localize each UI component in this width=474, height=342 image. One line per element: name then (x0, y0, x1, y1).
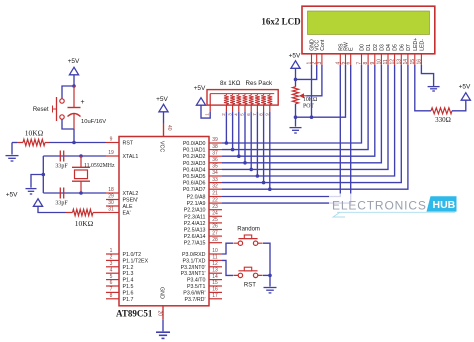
wire Random to gnd leg (263, 243, 270, 275)
svg-text:P1.4: P1.4 (123, 278, 134, 284)
svg-text:XTAL2: XTAL2 (123, 191, 139, 197)
wire XTAL1 row (43, 155, 106, 157)
power +5V led (459, 83, 471, 100)
wire respack common to +5V (201, 105, 210, 118)
pin PSEN' 29 (106, 194, 138, 204)
svg-text:D3: D3 (379, 44, 385, 51)
svg-text:P1.6: P1.6 (123, 290, 134, 296)
wire P0.0 to LCD D0 (222, 65, 362, 143)
wire respack pin6 to P0.4 (250, 112, 252, 169)
node P0.5 pullup (256, 174, 260, 178)
svg-text:P0.3/AD3: P0.3/AD3 (183, 161, 206, 167)
svg-text:XTAL1: XTAL1 (123, 154, 139, 160)
svg-text:39: 39 (212, 137, 218, 143)
pin P0.4/AD4 35 (183, 164, 222, 174)
pin P0.7/AD7 32 (183, 183, 222, 193)
label VCC (158, 141, 164, 152)
svg-text:D1: D1 (366, 44, 372, 51)
svg-text:ALE: ALE (123, 204, 133, 210)
svg-text:P3.0/RXD: P3.0/RXD (182, 252, 206, 258)
pin P1.3 4 (106, 267, 133, 277)
label AT89C51 (116, 309, 153, 319)
svg-text:14: 14 (403, 59, 409, 65)
svg-text:32: 32 (212, 183, 218, 189)
pin P0.0/AD0 39 (183, 137, 222, 147)
wire LED+ down (415, 65, 431, 111)
label 16x2 LCD (261, 17, 301, 27)
pin P2.1/A9 22 (187, 197, 222, 207)
pin P1.5 6 (106, 280, 133, 290)
svg-text:AT89C51: AT89C51 (116, 309, 153, 319)
svg-text:P1.5: P1.5 (123, 284, 134, 290)
svg-text:330Ω: 330Ω (435, 116, 451, 124)
switch Reset (53, 97, 65, 121)
svg-text:P2.2/A10: P2.2/A10 (184, 208, 206, 214)
svg-text:D2: D2 (373, 44, 379, 51)
switch RST (233, 267, 262, 277)
svg-text:13: 13 (212, 267, 218, 273)
pin P3.4/T0 14 (187, 274, 222, 284)
svg-text:P0.4/AD4: P0.4/AD4 (183, 167, 206, 173)
svg-text:21: 21 (212, 191, 218, 197)
node reset top junction (72, 84, 76, 88)
label RST (244, 283, 256, 289)
svg-text:D5: D5 (393, 44, 399, 51)
label X1 11.0592MHz (84, 163, 115, 169)
power +5V VCC (156, 96, 168, 112)
label 330 (435, 116, 451, 124)
pin P1.7 8 (106, 293, 133, 303)
svg-text:23: 23 (212, 204, 218, 210)
pin P2.0/A8 21 (187, 191, 222, 201)
label 10K POT (303, 97, 318, 110)
svg-text:HUB: HUB (433, 199, 456, 211)
watermark backdrop (329, 194, 458, 215)
svg-text:P0.7/AD7: P0.7/AD7 (183, 187, 206, 193)
svg-text:7: 7 (110, 287, 113, 293)
svg-text:16: 16 (212, 287, 218, 293)
wire P0.5 to LCD D5 (222, 65, 395, 176)
svg-text:10uF/16V: 10uF/16V (81, 119, 106, 125)
node lcd gnd junction (310, 115, 314, 119)
svg-text:P3.6/WR': P3.6/WR' (183, 290, 205, 296)
svg-text:RST: RST (244, 283, 256, 289)
node P0.3 pullup (243, 161, 247, 165)
node pot top junction (294, 78, 298, 82)
label 10uF/16V (81, 119, 106, 125)
svg-text:33pF: 33pF (55, 201, 68, 207)
svg-text:12: 12 (212, 261, 218, 267)
svg-text:40: 40 (166, 125, 172, 131)
svg-text:ELECTRONICS: ELECTRONICS (332, 199, 427, 213)
svg-text:P0.0/AD0: P0.0/AD0 (183, 141, 206, 147)
svg-text:20: 20 (157, 311, 163, 317)
svg-text:Cont: Cont (320, 39, 326, 51)
svg-text:16: 16 (416, 59, 422, 65)
svg-text:P1.2: P1.2 (123, 265, 134, 271)
wire +5V to junction (73, 75, 75, 86)
pin P0.6/AD6 33 (183, 177, 222, 187)
lcd screen (308, 11, 430, 35)
pin XTAL1 19 (106, 150, 138, 160)
wire GND pin1 (311, 65, 313, 117)
svg-text:33: 33 (212, 177, 218, 183)
wire P0.7 to LCD D7 (222, 65, 408, 189)
wire P0.6 to LCD D6 (222, 65, 401, 183)
svg-text:+: + (81, 99, 85, 106)
pin P2.7/A15 28 (184, 237, 222, 247)
wire P2.0 to LCD RS (222, 65, 340, 197)
pin P2.4/A12 25 (184, 217, 222, 227)
ground pot (290, 128, 302, 133)
svg-text:Reset: Reset (33, 107, 49, 113)
node RST junction (72, 141, 76, 145)
svg-text:22: 22 (212, 197, 218, 203)
svg-text:6: 6 (346, 62, 352, 65)
potentiometer RV1 10K (293, 87, 307, 104)
svg-text:4: 4 (110, 267, 113, 273)
wire VCC pin2 (296, 65, 317, 80)
wire P0.1 to LCD D1 (222, 65, 368, 150)
node P0.6 pullup (262, 181, 266, 185)
svg-text:P1.3: P1.3 (123, 271, 134, 277)
label GND (158, 287, 164, 299)
label respack (220, 80, 273, 87)
watermark electronics hub (332, 196, 457, 217)
label pin 40 (166, 125, 172, 131)
svg-text:12: 12 (390, 59, 396, 65)
node buttons gnd junction (268, 274, 272, 278)
svg-text:29: 29 (108, 194, 114, 200)
svg-text:P0.6/AD6: P0.6/AD6 (183, 181, 206, 187)
node XTAL1 crystal junction (79, 154, 83, 158)
pin P1.2 3 (106, 261, 133, 271)
wire respack pin7 to P0.5 (256, 112, 258, 176)
svg-text:16x2 LCD: 16x2 LCD (261, 17, 301, 27)
svg-text:RST: RST (123, 141, 134, 147)
pin P3.6/WR' 16 (183, 287, 222, 297)
capacitor C3 10uF/16V (68, 86, 85, 129)
switch Random (233, 235, 262, 245)
svg-text:POT: POT (303, 104, 314, 110)
wire pot bottom (295, 104, 297, 127)
svg-text:10: 10 (376, 59, 382, 65)
pin P2.2/A10 23 (184, 204, 222, 214)
wire R3 to +5V (452, 100, 466, 111)
power +5V respack (194, 85, 206, 105)
node XTAL2 crystal junction (79, 191, 83, 195)
svg-text:Random: Random (237, 227, 260, 233)
wire respack pin5 to P0.3 (244, 112, 246, 163)
wire to buttons ground (269, 275, 271, 286)
svg-text:27: 27 (212, 230, 218, 236)
node P0.7 pullup (268, 187, 272, 191)
svg-text:6: 6 (110, 280, 113, 286)
wire P0.3 to LCD D3 (222, 65, 381, 163)
wire RST btn to gnd (263, 274, 270, 276)
lcd pin labels (307, 38, 426, 65)
resistor R1 10K (12, 139, 49, 145)
svg-text:30: 30 (108, 200, 114, 206)
pin ALE 30 (106, 200, 133, 210)
node caps ground junction (42, 173, 46, 177)
label R2 10K (75, 219, 94, 228)
wire respack pin9 to P0.7 (269, 112, 271, 189)
svg-text:LED-: LED- (419, 39, 425, 51)
svg-text:9: 9 (110, 137, 113, 143)
ground crystal (26, 189, 37, 194)
label Reset (33, 107, 49, 113)
svg-text:D7: D7 (406, 44, 412, 51)
capacitor C1 33pF (60, 151, 63, 162)
svg-text:P1.1/T2EX: P1.1/T2EX (123, 258, 149, 264)
svg-text:36: 36 (212, 157, 218, 163)
wire R1 to ground (11, 143, 13, 155)
pin P3.3/INT1' 13 (181, 267, 222, 277)
wire respack pin4 to P0.2 (238, 112, 240, 156)
label C2 33pF (55, 201, 68, 207)
svg-text:D0: D0 (360, 44, 366, 51)
svg-text:17: 17 (212, 293, 218, 299)
svg-text:P2.7/A15: P2.7/A15 (184, 241, 206, 247)
node P0.2 pullup (237, 154, 241, 158)
wire caps to ground (31, 175, 43, 188)
svg-text:P3.4/T0: P3.4/T0 (187, 278, 206, 284)
power +5V pot (289, 53, 301, 69)
wire P3.1 to RST btn (222, 260, 233, 275)
svg-text:E: E (349, 47, 355, 51)
svg-text:8x 1KΩ Res Pack: 8x 1KΩ Res Pack (220, 80, 273, 87)
wire respack pin2 to P0.0 (225, 112, 227, 143)
svg-text:2: 2 (110, 255, 113, 261)
svg-text:P2.5/A13: P2.5/A13 (184, 228, 206, 234)
wire respack pin3 to P0.1 (232, 112, 234, 150)
ic U1 AT89C51 body (119, 137, 209, 306)
node P0.1 pullup (231, 148, 235, 152)
svg-text:15: 15 (212, 280, 218, 286)
pin P1.0/T2 1 (106, 248, 141, 258)
svg-text:LED+: LED+ (413, 38, 419, 51)
svg-text:P2.6/A14: P2.6/A14 (184, 234, 206, 240)
svg-text:14: 14 (212, 274, 218, 280)
svg-text:+5V: +5V (459, 83, 471, 90)
pin XTAL2 18 (106, 187, 138, 197)
svg-text:P0.1/AD1: P0.1/AD1 (183, 148, 206, 154)
resistor R2 10K (66, 209, 106, 215)
pin P2.3/A11 24 (184, 211, 222, 221)
svg-text:34: 34 (212, 170, 218, 176)
respack pins (205, 94, 270, 116)
svg-text:+5V: +5V (194, 85, 206, 92)
pin EA' 31 (106, 207, 131, 217)
pin GND 20 (162, 306, 164, 332)
wire XTAL2 row (43, 192, 106, 194)
wire RST row (49, 142, 106, 144)
svg-text:11.0592MHz: 11.0592MHz (84, 163, 115, 169)
pin P3.2/INT0' 12 (181, 261, 222, 271)
svg-text:P2.1/A9: P2.1/A9 (187, 201, 206, 207)
label R1 10K (25, 129, 44, 138)
svg-text:10KΩ: 10KΩ (25, 129, 44, 138)
wire LED- to ground (421, 65, 433, 86)
wire respack pin8 to P0.6 (263, 112, 265, 183)
svg-text:D4: D4 (386, 44, 392, 51)
svg-text:11: 11 (383, 59, 389, 64)
pin P2.6/A14 27 (184, 230, 222, 240)
svg-text:EA': EA' (123, 211, 131, 217)
svg-text:9: 9 (370, 62, 376, 65)
wire P0.4 to LCD D4 (222, 65, 388, 169)
svg-text:3: 3 (110, 261, 113, 267)
svg-text:7: 7 (357, 62, 363, 65)
power +5V EA net (6, 192, 43, 207)
pin P1.6 7 (106, 287, 133, 297)
wire EA row (38, 206, 66, 212)
wire Cont pin3 to wiper (307, 65, 322, 96)
svg-text:P3.3/INT1': P3.3/INT1' (181, 271, 206, 277)
node P0.4 pullup (249, 168, 253, 172)
svg-text:P2.0/A8: P2.0/A8 (187, 195, 206, 201)
pin P2.5/A13 26 (184, 224, 222, 234)
svg-text:24: 24 (212, 211, 218, 217)
svg-text:+5V: +5V (6, 192, 18, 199)
ground buttons (264, 288, 277, 293)
svg-text:P1.0/T2: P1.0/T2 (123, 252, 142, 258)
svg-text:D6: D6 (399, 44, 405, 51)
wire junction to button top (62, 86, 74, 99)
svg-text:31: 31 (108, 207, 114, 213)
svg-text:25: 25 (212, 217, 218, 223)
pin P3.1/TXD 11 (183, 255, 222, 265)
svg-text:38: 38 (212, 144, 218, 150)
ground LED- (428, 87, 440, 91)
wire P0.2 to LCD D2 (222, 65, 375, 156)
svg-text:33pF: 33pF (55, 164, 68, 170)
svg-text:P1.7: P1.7 (123, 297, 134, 303)
svg-text:1: 1 (110, 248, 113, 254)
svg-text:+5V: +5V (156, 96, 168, 103)
svg-text:37: 37 (212, 150, 218, 156)
svg-text:18: 18 (108, 187, 114, 193)
pin P0.1/AD1 38 (183, 144, 222, 154)
svg-text:P3.2/INT0': P3.2/INT0' (181, 265, 206, 271)
pin P1.1/T2EX 2 (106, 255, 149, 265)
pin P0.2/AD2 37 (183, 150, 222, 160)
capacitor C2 33pF (60, 188, 63, 199)
pin RST 9 (106, 137, 134, 147)
respack RP1 body (207, 90, 278, 106)
wire xtal caps left leg (42, 156, 44, 193)
respack resistors (224, 94, 272, 106)
svg-text:35: 35 (212, 164, 218, 170)
svg-text:PSEN': PSEN' (123, 198, 138, 204)
respack common bus (210, 93, 274, 95)
svg-text:5: 5 (110, 274, 113, 280)
svg-text:P2.3/A11: P2.3/A11 (184, 214, 205, 220)
svg-text:10KΩ: 10KΩ (75, 219, 94, 228)
pin P3.7/RD' 17 (184, 293, 222, 303)
svg-text:+5V: +5V (68, 58, 80, 65)
svg-text:3: 3 (317, 62, 323, 65)
label Random (237, 227, 260, 233)
label pin 20 (157, 311, 163, 317)
svg-text:P3.1/TXD: P3.1/TXD (183, 258, 206, 264)
power +5V reset net (68, 58, 80, 75)
svg-text:P3.7/RD': P3.7/RD' (184, 297, 205, 303)
svg-text:P0.2/AD2: P0.2/AD2 (183, 154, 206, 160)
svg-text:P2.4/A12: P2.4/A12 (184, 221, 206, 227)
pin P0.5/AD5 34 (183, 170, 222, 180)
ground U1 (156, 332, 170, 338)
crystal X1 11.0592MHz (72, 156, 90, 193)
svg-text:10: 10 (212, 248, 218, 254)
wire P2.1 to LCD E (222, 65, 351, 203)
node P0.0 pullup (225, 141, 229, 145)
pin P0.3/AD3 36 (183, 157, 222, 167)
wire P3.0 to Random (222, 243, 233, 254)
wire +5V to pot (295, 68, 297, 86)
wire gnd bus to RW (296, 65, 346, 117)
pin P3.5/T1 15 (187, 280, 222, 290)
label C1 33pF (55, 164, 68, 170)
svg-text:15: 15 (410, 59, 416, 65)
resistor R3 330 (431, 108, 452, 114)
svg-text:VCC: VCC (158, 141, 164, 152)
svg-text:+5V: +5V (289, 53, 301, 60)
pin VCC 40 (163, 112, 165, 137)
svg-text:13: 13 (396, 59, 402, 65)
wire cap to RST row (73, 129, 75, 143)
ground reset pulldown (6, 156, 19, 161)
svg-text:8: 8 (110, 293, 113, 299)
svg-text:26: 26 (212, 224, 218, 230)
pin P3.0/RXD 10 (182, 248, 222, 258)
svg-text:P3.5/T1: P3.5/T1 (187, 284, 206, 290)
svg-text:8: 8 (363, 62, 369, 65)
svg-text:11: 11 (212, 255, 217, 261)
wire button bottom (62, 119, 74, 129)
svg-text:19: 19 (108, 150, 114, 156)
svg-text:GND: GND (158, 287, 164, 299)
node pot gnd junction (294, 115, 298, 119)
lcd LCD1 body (302, 6, 435, 54)
lcd pins (312, 54, 422, 65)
svg-text:P0.5/AD5: P0.5/AD5 (183, 174, 206, 180)
svg-text:10KΩ: 10KΩ (303, 97, 318, 103)
pin P1.4 5 (106, 274, 133, 284)
svg-text:28: 28 (212, 237, 218, 243)
